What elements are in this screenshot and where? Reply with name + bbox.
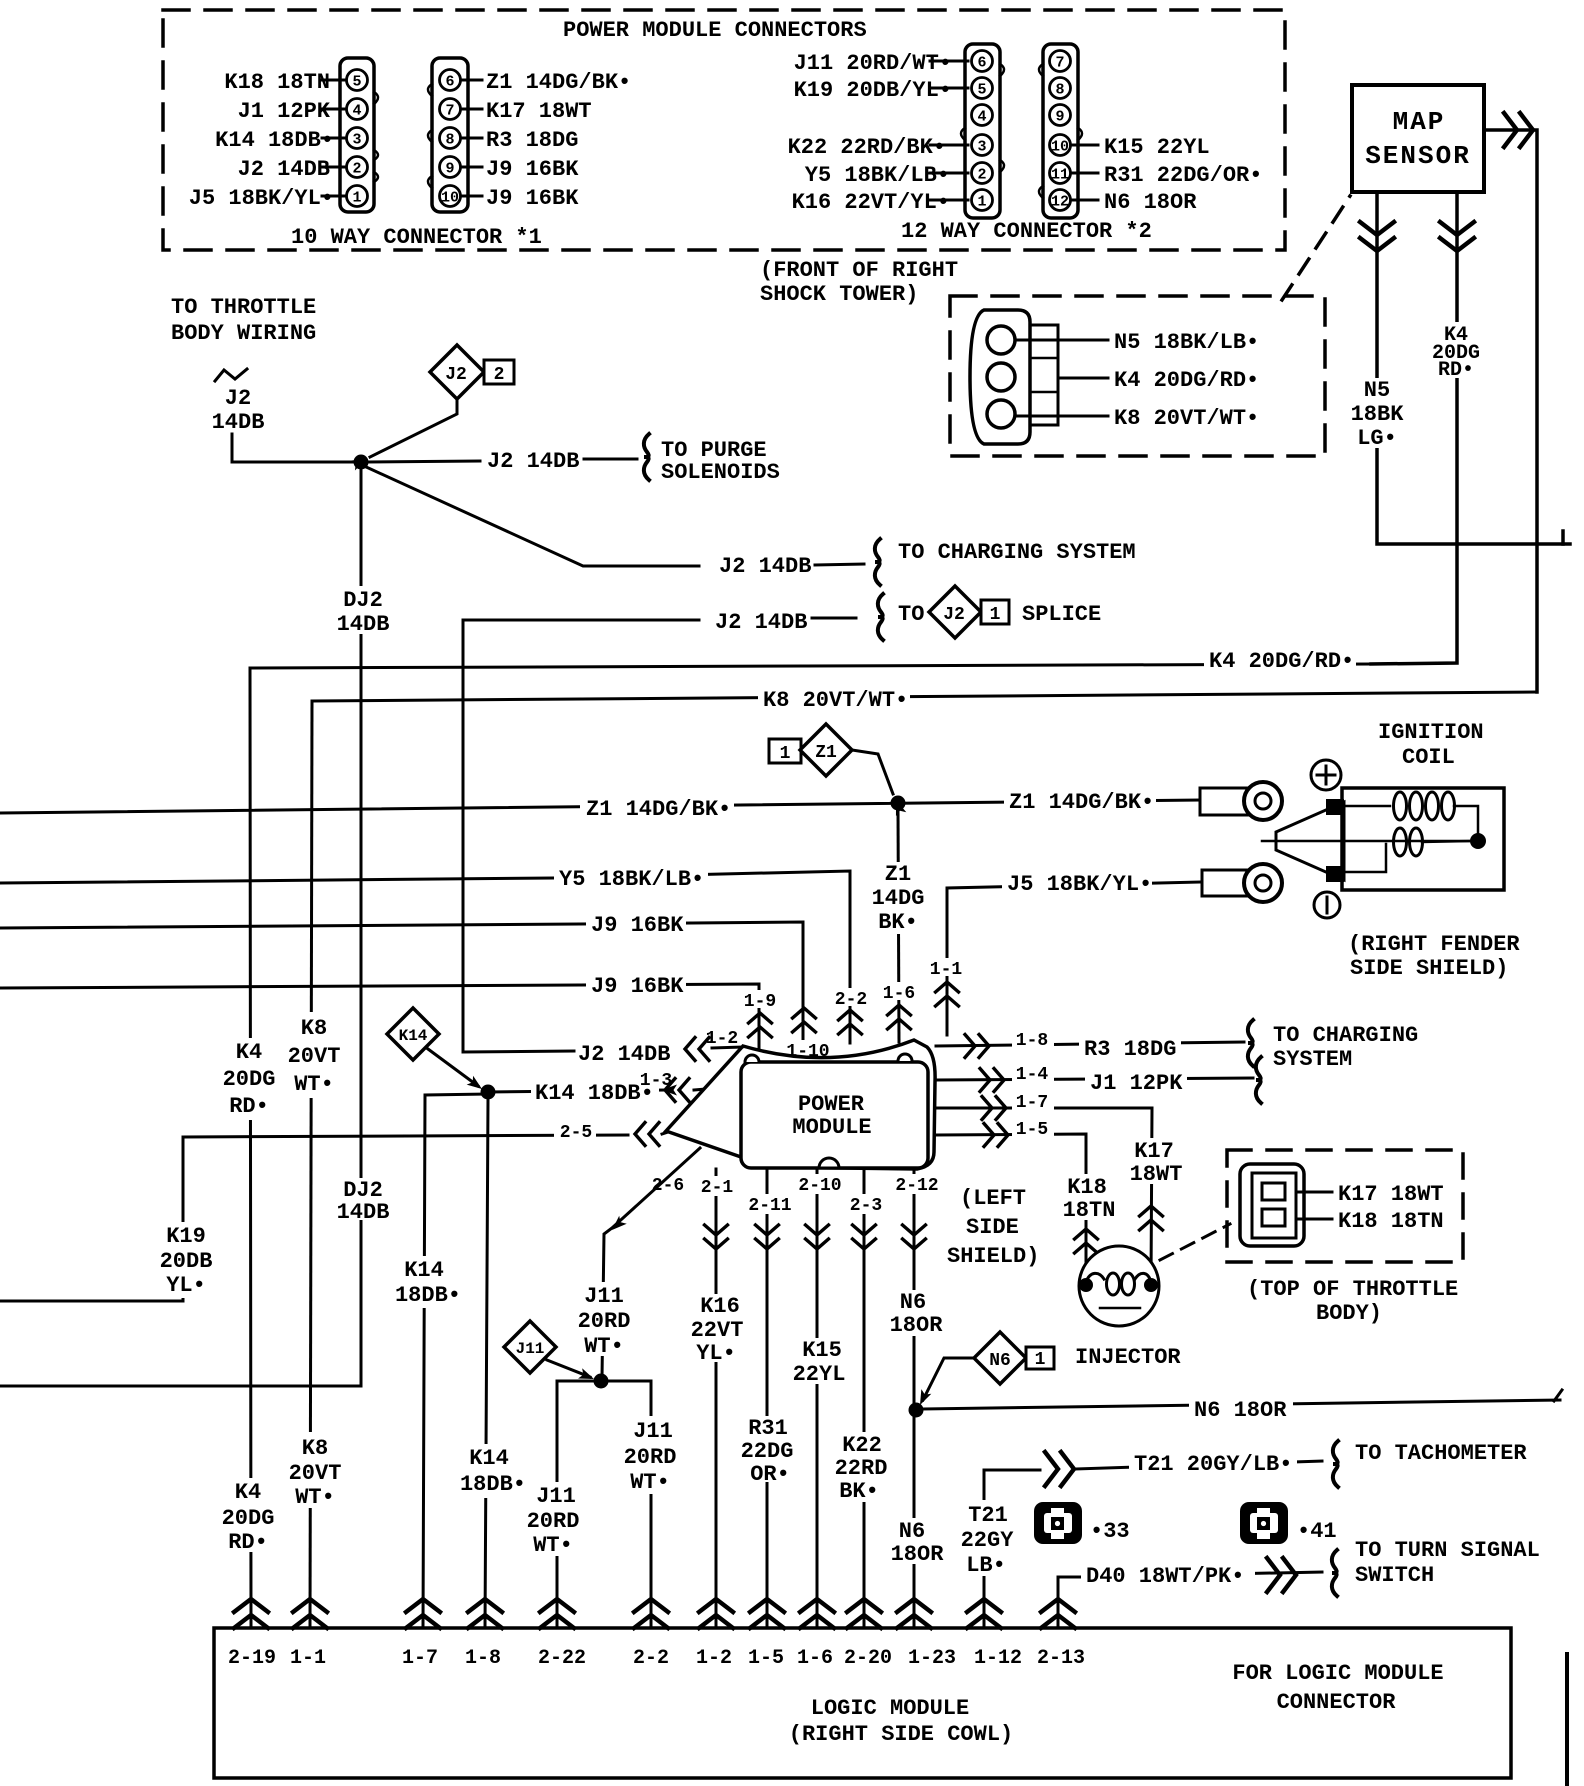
power module outline (666, 1040, 935, 1169)
svg-text:N6: N6 (899, 1519, 925, 1544)
svg-text:Z1 14DG/BK•: Z1 14DG/BK• (486, 70, 631, 95)
coil tower funnel (1276, 802, 1344, 880)
svg-text:BK•: BK• (839, 1479, 879, 1504)
svg-text:2: 2 (977, 167, 986, 184)
svg-text:4: 4 (977, 109, 986, 126)
wire K8 20VT/WT (1016, 415, 1108, 418)
svg-text:BODY): BODY) (1316, 1301, 1382, 1326)
svg-text:K15 22YL: K15 22YL (1104, 135, 1210, 160)
svg-text:SPLICE: SPLICE (1022, 602, 1101, 627)
pin 3 (347, 128, 368, 149)
svg-text:POWER MODULE CONNECTORS: POWER MODULE CONNECTORS (563, 18, 867, 43)
svg-text:TO THROTTLE: TO THROTTLE (171, 295, 316, 320)
svg-text:(TOP OF THROTTLE: (TOP OF THROTTLE (1247, 1277, 1458, 1302)
svg-text:J9 16BK: J9 16BK (591, 974, 684, 999)
svg-text:Z1 14DG/BK•: Z1 14DG/BK• (586, 797, 731, 822)
svg-text:1-5: 1-5 (1016, 1120, 1048, 1140)
svg-text:COIL: COIL (1402, 745, 1455, 770)
wire N5 18BK/LB (1016, 339, 1108, 342)
dashed leader from map sensor to shock tower box (1282, 196, 1350, 300)
svg-text:J2: J2 (943, 605, 965, 625)
svg-text:SOLENOIDS: SOLENOIDS (661, 460, 780, 485)
svg-text:2-10: 2-10 (798, 1176, 841, 1196)
wire label K16 22VT/YL pin1 (930, 199, 968, 202)
dashed leader injector to throttle connector (1160, 1224, 1230, 1260)
svg-text:1: 1 (1035, 1350, 1046, 1370)
svg-text:LOGIC MODULE: LOGIC MODULE (811, 1696, 969, 1721)
svg-text:1-6: 1-6 (797, 1647, 833, 1670)
svg-text:N6: N6 (900, 1290, 926, 1315)
svg-text:2: 2 (352, 161, 361, 178)
svg-text:N5: N5 (1364, 378, 1390, 403)
svg-text:K14: K14 (469, 1446, 509, 1471)
svg-text:•33: •33 (1090, 1519, 1130, 1544)
svg-text:Y5 18BK/LB•: Y5 18BK/LB• (805, 163, 950, 188)
svg-text:20DB: 20DB (160, 1249, 213, 1274)
svg-text:2-19: 2-19 (228, 1647, 276, 1670)
svg-text:8: 8 (1055, 82, 1064, 99)
ignition coil case (1342, 788, 1504, 890)
svg-text:K8 20VT/WT•: K8 20VT/WT• (1114, 406, 1259, 431)
svg-text:18WT: 18WT (1130, 1162, 1183, 1187)
svg-text:SIDE: SIDE (966, 1215, 1019, 1240)
svg-text:K14: K14 (404, 1258, 444, 1283)
svg-text:DJ2: DJ2 (343, 588, 383, 613)
svg-text:FOR LOGIC MODULE: FOR LOGIC MODULE (1232, 1661, 1443, 1686)
svg-text:LB•: LB• (966, 1553, 1006, 1578)
module pin 2-3 wire K22 to logic 2-20 (863, 1171, 866, 1628)
svg-text:14DB: 14DB (337, 612, 390, 637)
svg-text:5: 5 (977, 82, 986, 99)
pin 10 (440, 186, 461, 207)
svg-text:SHOCK TOWER): SHOCK TOWER) (760, 282, 918, 307)
svg-text:1-4: 1-4 (1016, 1065, 1049, 1085)
splice symbol J2 2 (430, 345, 484, 399)
module pin 2-1 wire K16 to logic 1-2 (715, 1169, 718, 1628)
wire J9 16BK to module 1-10 (0, 922, 803, 1060)
wire K4 20DG/RD (1058, 377, 1108, 380)
svg-text:1-23: 1-23 (908, 1647, 956, 1670)
connector 10-way #1 left shell (340, 58, 374, 212)
wire DJ2 14DB vertical (0, 469, 361, 1386)
svg-text:R31 22DG/OR•: R31 22DG/OR• (1104, 163, 1262, 188)
module pin 1-5 wire to K18 (936, 1134, 1086, 1284)
pin label 2-5 (554, 1121, 596, 1139)
svg-text:7: 7 (1055, 55, 1064, 72)
wire from K14 splice to junction (428, 1049, 478, 1086)
pin circle 3 (987, 400, 1015, 428)
svg-text:BK•: BK• (878, 910, 918, 935)
svg-text:J2: J2 (445, 365, 467, 385)
svg-text:J2 14DB: J2 14DB (578, 1042, 670, 1067)
svg-text:WT•: WT• (533, 1533, 573, 1558)
svg-text:J11: J11 (536, 1484, 576, 1509)
svg-text:Z1: Z1 (815, 743, 837, 763)
svg-text:N6 18OR: N6 18OR (1104, 190, 1197, 215)
svg-text:J2: J2 (225, 386, 251, 411)
module pin 1-4 wire J1 12PK (936, 1078, 1253, 1080)
wire Y5 18BK/LB to module 2-2 (0, 871, 850, 1043)
svg-text:12 WAY CONNECTOR *2: 12 WAY CONNECTOR *2 (901, 219, 1152, 244)
svg-text:7: 7 (445, 103, 454, 120)
wire label K19 20DB/YL pin5 (930, 87, 968, 90)
svg-text:K4: K4 (236, 1040, 262, 1065)
svg-text:YL•: YL• (166, 1273, 206, 1298)
svg-text:INJECTOR: INJECTOR (1075, 1345, 1181, 1370)
svg-text:(LEFT: (LEFT (960, 1186, 1026, 1211)
splice symbol K14 (387, 1008, 439, 1060)
module pin 2-12 wire N6 to logic 1-23 (913, 1169, 916, 1628)
wire J2 14DB to splice (463, 620, 699, 1052)
wire label J1 12PK pin4 (322, 108, 346, 111)
shock tower connector dashed box (950, 296, 1325, 456)
wire label R31 22DG/OR pin11 (1072, 172, 1098, 175)
svg-text:J2 14DB: J2 14DB (487, 449, 579, 474)
wire label J2 14DB pin2 (322, 166, 346, 169)
svg-text:J11 20RD/WT•: J11 20RD/WT• (794, 51, 952, 76)
coil internal junction node (1470, 833, 1486, 849)
svg-text:20RD: 20RD (578, 1309, 631, 1334)
wire from Z1 splice to junction (852, 750, 893, 794)
svg-text:18BK: 18BK (1351, 402, 1405, 427)
svg-text:J1 12PK: J1 12PK (238, 99, 331, 124)
svg-text:K17: K17 (1134, 1139, 1174, 1164)
svg-text:2-22: 2-22 (538, 1647, 586, 1670)
svg-text:TO CHARGING SYSTEM: TO CHARGING SYSTEM (898, 540, 1136, 565)
svg-text:K15: K15 (802, 1338, 842, 1363)
pin label 1-6 (884, 982, 916, 1000)
svg-text:J11: J11 (633, 1419, 673, 1444)
wire label J9 16BK pin10 (461, 195, 482, 198)
svg-text:1: 1 (352, 190, 361, 207)
svg-text:K14 18DB•: K14 18DB• (535, 1081, 654, 1106)
connector icon 33 (1034, 1502, 1082, 1544)
wire K14 18DB label run (488, 1090, 664, 1092)
wire N6 18OR horizontal (923, 1400, 1560, 1409)
svg-text:1-9: 1-9 (744, 992, 776, 1012)
pin 9 (440, 157, 461, 178)
svg-text:18OR: 18OR (891, 1542, 945, 1567)
svg-text:R3 18DG: R3 18DG (486, 128, 578, 153)
svg-text:SENSOR: SENSOR (1365, 141, 1471, 171)
wire Z1 14DG/BK horizontal (0, 800, 1200, 813)
pin label 1-9 (744, 990, 776, 1008)
svg-text:TO TURN SIGNAL: TO TURN SIGNAL (1355, 1538, 1540, 1563)
svg-text:K17 18WT: K17 18WT (486, 99, 592, 124)
svg-text:2-13: 2-13 (1037, 1647, 1085, 1670)
wire label K17 18WT pin7 (461, 108, 482, 111)
label J11 20RD WT upper (575, 1282, 631, 1356)
svg-text:K18: K18 (1067, 1175, 1107, 1200)
svg-text:J2 14DB: J2 14DB (238, 157, 330, 182)
svg-text:(FRONT OF RIGHT: (FRONT OF RIGHT (760, 258, 958, 283)
svg-text:20RD: 20RD (527, 1509, 580, 1534)
svg-text:10: 10 (441, 190, 459, 207)
power module body U1 (741, 1062, 928, 1168)
svg-text:2-2: 2-2 (835, 990, 867, 1010)
svg-text:2-6: 2-6 (652, 1176, 684, 1196)
pin 12 (1050, 190, 1071, 211)
pin 5 (347, 70, 368, 91)
module pin 2-11 wire R31 to logic 1-5 (766, 1171, 769, 1628)
svg-text:20DG: 20DG (222, 1506, 275, 1531)
svg-text:Y5 18BK/LB•: Y5 18BK/LB• (559, 867, 704, 892)
svg-text:TO: TO (898, 602, 924, 627)
wire label J9 16BK pin9 (461, 166, 482, 169)
svg-text:9: 9 (1055, 109, 1064, 126)
svg-text:2-11: 2-11 (748, 1196, 791, 1216)
splice symbol J2 1 (929, 586, 981, 638)
svg-text:8: 8 (445, 132, 454, 149)
pin 9 (1050, 105, 1071, 126)
junction node N6 (909, 1403, 924, 1418)
svg-text:J11: J11 (516, 1340, 545, 1358)
wire stub to throttle body with strain squiggle (215, 369, 247, 381)
svg-text:1-6: 1-6 (883, 984, 915, 1004)
pin 5 (972, 78, 993, 99)
svg-text:J11: J11 (584, 1284, 624, 1309)
coil primary winding (1344, 805, 1390, 808)
svg-text:TO CHARGING: TO CHARGING (1273, 1023, 1418, 1048)
coil terminal blocks (1326, 799, 1344, 815)
svg-text:10: 10 (1051, 139, 1069, 156)
wire J2 to junction (232, 434, 356, 462)
wire K18 18TN throttle (1296, 1218, 1332, 1221)
wire from J11 splice to junction (547, 1360, 590, 1377)
page border fragment right (1565, 1654, 1569, 1786)
wire J11 right branch to logic 2-2 (601, 1381, 651, 1628)
svg-text:22VT: 22VT (691, 1318, 744, 1343)
wire label J5 18BK/YL pin1 (322, 195, 346, 198)
svg-text:14DB: 14DB (337, 1200, 390, 1225)
3-pin connector shell (970, 310, 1030, 444)
junction node J11 (594, 1374, 609, 1389)
pin 1 (972, 190, 993, 211)
svg-text:K18 18TN: K18 18TN (1338, 1209, 1444, 1234)
coil positive terminal (1311, 760, 1341, 790)
svg-text:22RD: 22RD (835, 1456, 888, 1481)
wire map output to K8 line (1484, 130, 1537, 692)
svg-text:LG•: LG• (1357, 426, 1397, 451)
wire K4 20DG/RD long run (250, 664, 1371, 668)
svg-text:1: 1 (977, 194, 986, 211)
svg-text:K22: K22 (842, 1433, 882, 1458)
svg-text:22DG: 22DG (741, 1439, 794, 1464)
svg-text:6: 6 (977, 55, 986, 72)
svg-text:1-1: 1-1 (930, 960, 963, 980)
svg-text:2-5: 2-5 (560, 1123, 592, 1143)
svg-text:R3 18DG: R3 18DG (1084, 1037, 1176, 1062)
svg-text:1: 1 (990, 605, 1001, 625)
svg-text:K8: K8 (301, 1016, 327, 1041)
svg-text:K17 18WT: K17 18WT (1338, 1182, 1444, 1207)
svg-text:Z1: Z1 (885, 862, 911, 887)
wire label Z1 14DG/BK pin6 (461, 79, 482, 82)
wire T21 to tachometer (984, 1470, 1040, 1628)
svg-text:22GY: 22GY (961, 1528, 1015, 1553)
svg-text:WT•: WT• (584, 1334, 624, 1359)
coil secondary winding (1344, 844, 1386, 872)
wire map K4 vertical (1371, 192, 1457, 664)
svg-text:J9 16BK: J9 16BK (486, 157, 579, 182)
splice symbol J11 (504, 1321, 556, 1373)
coil negative terminal (1314, 892, 1340, 918)
wire label J11 20RD/WT pin6 (930, 60, 968, 63)
svg-text:WT•: WT• (630, 1470, 670, 1495)
svg-text:K19: K19 (166, 1224, 206, 1249)
svg-text:WT•: WT• (295, 1485, 335, 1510)
svg-text:TO TACHOMETER: TO TACHOMETER (1355, 1441, 1527, 1466)
svg-text:K8: K8 (302, 1436, 328, 1461)
svg-text:J1 12PK: J1 12PK (1090, 1071, 1183, 1096)
svg-text:14DG: 14DG (872, 886, 925, 911)
pin 8 (1050, 78, 1071, 99)
coil center electrode line (1262, 840, 1476, 843)
svg-text:18OR: 18OR (890, 1313, 944, 1338)
svg-text:T21: T21 (968, 1503, 1008, 1528)
svg-text:BODY WIRING: BODY WIRING (171, 321, 316, 346)
svg-text:3: 3 (977, 139, 986, 156)
svg-text:20VT: 20VT (289, 1461, 342, 1486)
label T21 22GY LB (958, 1500, 1016, 1576)
svg-text:10 WAY CONNECTOR *1: 10 WAY CONNECTOR *1 (291, 225, 542, 250)
svg-text:OR•: OR• (750, 1462, 790, 1487)
svg-text:SIDE SHIELD): SIDE SHIELD) (1350, 956, 1508, 981)
wire label R3 18DG pin8 (461, 137, 482, 140)
wire K14 18DB second vertical to logic 1-8 (485, 1099, 488, 1628)
svg-text:J5 18BK/YL•: J5 18BK/YL• (1007, 872, 1152, 897)
wire J9 16BK to module 1-9 (0, 984, 759, 1056)
wire label K22 22RD/BK pin3 (930, 144, 968, 147)
wire K4 20DG/RD vertical to logic 2-19 (250, 668, 251, 1628)
pin 4 (347, 99, 368, 120)
svg-text:K4: K4 (235, 1480, 261, 1505)
svg-text:N6 18OR: N6 18OR (1194, 1398, 1287, 1423)
svg-text:1-8: 1-8 (465, 1647, 501, 1670)
svg-text:J5 18BK/YL•: J5 18BK/YL• (189, 186, 334, 211)
pin 11 (1050, 163, 1071, 184)
svg-text:J2 14DB: J2 14DB (719, 554, 811, 579)
svg-text:K16: K16 (700, 1294, 740, 1319)
connector 12-way #2 left shell (965, 44, 1000, 218)
svg-text:5: 5 (352, 74, 361, 91)
injector coil component (1079, 1246, 1159, 1326)
wire J2 14DB to purge solenoids (368, 461, 480, 462)
svg-text:K16 22VT/YL•: K16 22VT/YL• (792, 190, 950, 215)
svg-text:2-12: 2-12 (895, 1176, 938, 1196)
svg-text:K22 22RD/BK•: K22 22RD/BK• (788, 135, 946, 160)
wire J11 left branch to logic 2-22 (557, 1381, 601, 1628)
wire label K18 18TN pin5 (322, 79, 346, 82)
svg-text:RD•: RD• (228, 1530, 268, 1555)
svg-text:9: 9 (445, 161, 454, 178)
svg-text:K14 18DB•: K14 18DB• (215, 128, 334, 153)
svg-text:1-12: 1-12 (974, 1647, 1022, 1670)
wire from J2 splice to junction (370, 399, 457, 457)
svg-text:1-8: 1-8 (1016, 1031, 1048, 1051)
svg-text:SHIELD): SHIELD) (947, 1244, 1039, 1269)
pin 10 (1050, 135, 1071, 156)
pin 6 (440, 70, 461, 91)
svg-text:18TN: 18TN (1063, 1198, 1116, 1223)
svg-text:2-3: 2-3 (850, 1196, 882, 1216)
svg-text:WT•: WT• (294, 1072, 334, 1097)
svg-text:1-5: 1-5 (748, 1647, 784, 1670)
svg-text:1-7: 1-7 (402, 1647, 438, 1670)
svg-text:D40 18WT/PK•: D40 18WT/PK• (1086, 1564, 1244, 1589)
svg-text:SWITCH: SWITCH (1355, 1563, 1434, 1588)
ring terminal J5 (1202, 870, 1248, 896)
svg-text:•41: •41 (1297, 1519, 1337, 1544)
wire K17 18WT throttle (1296, 1191, 1332, 1194)
svg-text:MAP: MAP (1393, 107, 1446, 137)
svg-text:J2 14DB: J2 14DB (715, 610, 807, 635)
svg-text:20DG: 20DG (223, 1067, 276, 1092)
wire K19 exit and 2-5 line (0, 1135, 628, 1301)
svg-text:2-2: 2-2 (633, 1647, 669, 1670)
svg-text:CONNECTOR: CONNECTOR (1277, 1690, 1397, 1715)
svg-text:N6: N6 (989, 1351, 1011, 1371)
wire D40 to turn signal switch (1058, 1577, 1081, 1628)
module pin 1-7 wire to K17 (936, 1108, 1152, 1284)
wire label K14 18DB pin3 (322, 137, 346, 140)
throttle body connector dashed box (1227, 1150, 1463, 1262)
pin 2 (347, 157, 368, 178)
svg-text:1-7: 1-7 (1016, 1093, 1048, 1113)
svg-text:2: 2 (494, 365, 505, 385)
connector 10-way #1 right shell (432, 58, 468, 212)
wire J5 18BK/YL to module 1-1 (947, 882, 1200, 1035)
svg-text:1-2: 1-2 (696, 1647, 732, 1670)
pin 3 (972, 135, 993, 156)
svg-text:IGNITION: IGNITION (1378, 720, 1484, 745)
wire J2 14DB to charging system (364, 466, 699, 566)
pin 6 (972, 51, 993, 72)
splice symbol N6 1 (974, 1332, 1026, 1384)
svg-text:K8 20VT/WT•: K8 20VT/WT• (763, 688, 908, 713)
svg-text:1-2: 1-2 (706, 1029, 738, 1049)
module pin 1-8 wire R3 18DG to charging system (936, 1042, 1244, 1046)
wire from N6 splice to junction (923, 1358, 974, 1400)
ring terminal Z1 (1200, 788, 1248, 815)
pin 7 (440, 99, 461, 120)
svg-text:22YL: 22YL (793, 1362, 846, 1387)
pin circle 1 (987, 326, 1015, 354)
svg-text:RD•: RD• (1438, 359, 1474, 382)
power module connectors dashed box (163, 10, 1285, 250)
junction node J2 (354, 455, 369, 470)
pin 2 (972, 163, 993, 184)
splice symbol Z1 1 (769, 739, 801, 763)
svg-text:K14: K14 (399, 1027, 428, 1045)
wire K14 18DB first vertical to logic 1-7 (423, 1094, 488, 1628)
pin label 1-10 (784, 1040, 830, 1058)
svg-text:SYSTEM: SYSTEM (1273, 1047, 1352, 1072)
svg-text:J9 16BK: J9 16BK (591, 913, 684, 938)
svg-text:K4 20DG/RD•: K4 20DG/RD• (1114, 368, 1259, 393)
junction node Z1 (891, 796, 906, 811)
svg-text:J9 16BK: J9 16BK (486, 186, 579, 211)
svg-text:20RD: 20RD (624, 1445, 677, 1470)
svg-text:Z1 14DG/BK•: Z1 14DG/BK• (1009, 790, 1154, 815)
pin circle 2 (987, 363, 1015, 391)
svg-text:K19 20DB/YL•: K19 20DB/YL• (794, 78, 952, 103)
pin label 2-2 (834, 988, 868, 1006)
wire K8 20VT/WT long run (312, 692, 1537, 701)
svg-text:14DB: 14DB (212, 410, 265, 435)
svg-text:18DB•: 18DB• (460, 1472, 526, 1497)
svg-text:3: 3 (352, 132, 361, 149)
